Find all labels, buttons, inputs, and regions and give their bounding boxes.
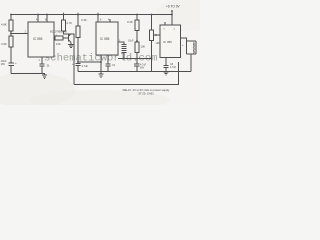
wire C8 to rail	[165, 68, 167, 72]
op-amp U1	[28, 22, 54, 57]
svg-text:4.7uF: 4.7uF	[82, 64, 89, 68]
wire collector jog to R4	[64, 31, 72, 34]
wire C4 to rail	[107, 66, 109, 72]
ground C8	[164, 72, 169, 75]
node rail-left	[10, 14, 12, 16]
capacitor C3	[76, 63, 81, 65]
svg-text:.01: .01	[112, 63, 116, 67]
node IC2 gnd	[100, 61, 102, 63]
wire R2 down to C1	[10, 47, 12, 63]
resistor R6	[135, 20, 139, 31]
op-amp U3	[160, 25, 181, 58]
scan background	[0, 0, 200, 105]
speaker LS1	[187, 41, 197, 54]
resistor R7	[135, 42, 139, 53]
svg-text:+: +	[182, 43, 184, 47]
svg-text:4.7K: 4.7K	[66, 21, 72, 25]
svg-text:RELAY: 4V to 6V coils on power: RELAY: 4V to 6V coils on power supply	[123, 88, 170, 92]
capacitor C7	[134, 59, 140, 72]
node R6R7	[136, 40, 138, 42]
wire IC1 pin3 to R3	[53, 37, 56, 39]
wire rail to R1	[10, 15, 12, 21]
wire VR1 column to rail	[151, 59, 153, 72]
svg-text:+6 TO 9V: +6 TO 9V	[166, 5, 180, 9]
resistor R1	[9, 20, 13, 31]
node H	[171, 14, 173, 16]
wire supply entry down	[171, 11, 173, 15]
capacitor C8	[164, 66, 169, 68]
wire rail to R6	[136, 15, 138, 21]
wire top rail	[11, 14, 172, 16]
pin tick a	[63, 13, 65, 15]
capacitor C2	[40, 64, 45, 66]
wire mid row	[118, 58, 152, 60]
wire collector output down	[71, 34, 74, 85]
wire R1 to junction	[10, 31, 12, 36]
svg-text:10K: 10K	[56, 42, 61, 46]
wire IC1 pin4 to rail	[37, 15, 39, 23]
transistor Q1	[67, 35, 69, 42]
ground left	[42, 74, 47, 79]
wire IC3 bottom pin to C8	[165, 58, 167, 66]
node C3 top	[77, 61, 79, 63]
svg-text:10K: 10K	[141, 45, 146, 49]
wire speaker to rail	[190, 54, 192, 71]
node D	[77, 14, 79, 16]
svg-text:50V: 50V	[140, 67, 145, 70]
svg-text:ST-25: OA91: ST-25: OA91	[138, 91, 154, 95]
potentiometer VR1	[150, 30, 154, 41]
node A	[37, 14, 39, 16]
wire R3 to base	[63, 37, 69, 39]
resistor R5	[76, 26, 80, 38]
wire R7 down to row	[136, 53, 138, 59]
node E	[97, 14, 99, 16]
scan mottle	[0, 72, 75, 108]
wire VR1 down to row	[151, 41, 153, 59]
node B	[46, 14, 48, 16]
wire bottom rail right section	[78, 70, 191, 72]
op-amp U2	[96, 22, 118, 55]
pin tick b	[77, 13, 79, 15]
svg-text:IC 555: IC 555	[33, 37, 43, 41]
resistor R2	[9, 36, 13, 47]
wire C3 to rail	[77, 65, 79, 71]
wiper arrow	[154, 34, 160, 36]
svg-text:IC 555: IC 555	[100, 37, 110, 41]
wire C5 down to wire row	[123, 53, 125, 59]
supply entry node	[171, 10, 173, 12]
wire C1 to bottom rail	[10, 66, 12, 74]
wire IC3 out to speaker	[181, 38, 187, 41]
node VR1 row	[151, 58, 153, 60]
pin tick c	[97, 13, 99, 15]
wire emitter to ground	[70, 42, 72, 44]
wire R5 down	[77, 38, 79, 64]
svg-text:10uF: 10uF	[128, 40, 134, 43]
ground Q1	[68, 45, 74, 48]
capacitor C4	[106, 64, 111, 66]
node G	[151, 14, 153, 16]
wire rail to R4	[63, 15, 65, 21]
wire IC2 right pin to C5	[118, 42, 124, 44]
capacitor C1	[9, 63, 15, 65]
svg-text:4.8K: 4.8K	[1, 23, 7, 27]
svg-text:3.3K: 3.3K	[81, 18, 87, 22]
node C	[63, 14, 65, 16]
node F	[136, 14, 138, 16]
wire IC2 bottom pin1 to ground	[100, 55, 102, 71]
ground IC2	[99, 71, 104, 77]
wire C2 to bottom rail	[41, 66, 43, 74]
wire IC1 pin8 to rail	[46, 15, 48, 23]
capacitor C5	[122, 44, 127, 52]
wire IC2 pin stub top2	[109, 19, 111, 22]
svg-text:.01: .01	[46, 64, 50, 68]
resistor R3	[55, 36, 63, 40]
resistor R4	[61, 20, 65, 31]
wire divider to IC1 pin2	[11, 33, 28, 35]
wire IC2 bottom pin5 down	[107, 55, 109, 64]
wire R6 to R7	[136, 31, 138, 43]
wire rail to VR1	[151, 15, 153, 31]
svg-text:4.7uF: 4.7uF	[170, 66, 177, 69]
wire output bottom run	[74, 62, 179, 85]
wire IC1 pin1 down	[41, 57, 43, 64]
wire IC3 top to supply	[171, 15, 173, 26]
svg-text:10K: 10K	[156, 42, 161, 45]
svg-text:IC 386: IC 386	[163, 40, 172, 44]
node divider	[10, 33, 12, 35]
wire bottom rail left	[11, 73, 45, 75]
svg-text:3.3K: 3.3K	[127, 20, 133, 24]
svg-text:+: +	[72, 62, 74, 66]
svg-text:3.9K: 3.9K	[1, 42, 7, 46]
wire C3 junction to IC2 column	[78, 61, 101, 63]
svg-text:+: +	[15, 61, 17, 65]
node row2	[136, 58, 138, 60]
wire IC3 top stub2	[164, 22, 166, 25]
node row1	[123, 58, 125, 60]
wire rail to R5	[77, 15, 79, 27]
wire IC2 top pin to rail	[97, 15, 99, 23]
svg-text:16V: 16V	[1, 62, 6, 66]
